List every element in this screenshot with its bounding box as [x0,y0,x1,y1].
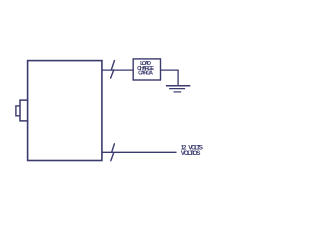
net label 12 VOLTS / VOLTIOS [181,145,203,157]
battery B1 (main device rectangle) [28,61,102,161]
ground symbol [166,86,190,92]
wire break symbol (top lead) [111,61,115,79]
wire: load to ground [161,70,179,86]
wire: top lead from battery to load [102,69,133,71]
wire break symbol (bottom lead) [111,144,115,161]
wire: bottom lead (12 V) [102,151,177,153]
load box U1 [133,59,160,80]
load label LOAD / CHARGE / CARGA [137,61,154,77]
svg-text:CARGA: CARGA [138,71,153,77]
svg-text:VOLTIOS: VOLTIOS [181,150,201,157]
battery terminal inner tab [16,106,20,116]
battery terminal outer tab [20,100,28,121]
